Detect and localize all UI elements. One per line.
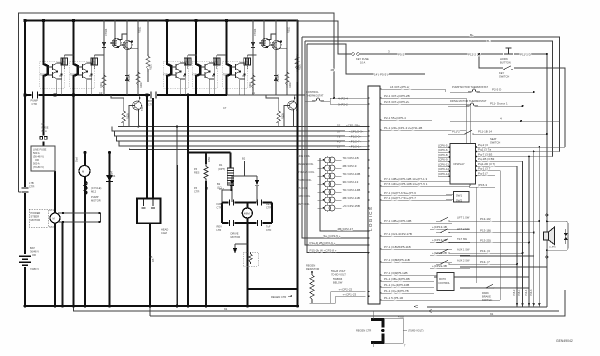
svg-text:B2: B2 bbox=[217, 182, 221, 186]
svg-text:MOTO: MOTO bbox=[439, 278, 446, 281]
svg-text:REV: REV bbox=[266, 202, 272, 206]
svg-text:SWITCH: SWITCH bbox=[490, 141, 500, 145]
svg-text:BAT: BAT bbox=[30, 246, 35, 250]
svg-text:P11-1 D: P11-1 D bbox=[520, 53, 532, 57]
svg-text:14 ( P5-5 (: 14 ( P5-5 ( bbox=[374, 73, 388, 77]
svg-text:36/48 V: 36/48 V bbox=[30, 250, 39, 254]
svg-text:(CP6-5: (CP6-5 bbox=[438, 143, 448, 147]
svg-text:P7-1 13B+(CP5-13B: P7-1 13B+(CP5-13B bbox=[384, 219, 411, 223]
svg-text:HEAD: HEAD bbox=[161, 228, 168, 232]
svg-text:L7B: L7B bbox=[29, 181, 34, 185]
svg-text:CTR: CTR bbox=[32, 102, 37, 106]
svg-text:+5: +5 bbox=[337, 140, 341, 144]
svg-text:MOTOR: MOTOR bbox=[91, 199, 101, 203]
svg-text:B2: B2 bbox=[242, 157, 246, 161]
svg-text:7D-8D VOLT: 7D-8D VOLT bbox=[331, 273, 346, 277]
svg-text:CTR: CTR bbox=[194, 190, 199, 194]
svg-text:5W1: 5W1 bbox=[456, 194, 463, 198]
svg-text:LTR: LTR bbox=[217, 228, 222, 232]
svg-text:FUSE: FUSE bbox=[42, 126, 49, 130]
svg-text:CTR: CTR bbox=[148, 103, 153, 107]
svg-text:RES: RES bbox=[194, 171, 200, 175]
svg-text:M12: M12 bbox=[91, 190, 97, 194]
svg-text:<P1/2-5<: <P1/2-5< bbox=[349, 135, 362, 139]
svg-text:P2-1 34T+(CP5-2B: P2-1 34T+(CP5-2B bbox=[384, 94, 410, 98]
svg-text:(P15-3: (P15-3 bbox=[478, 183, 487, 187]
svg-text:P2-1 55+(CP5-4: P2-1 55+(CP5-4 bbox=[384, 116, 406, 120]
svg-text:PUMP: PUMP bbox=[31, 99, 39, 103]
svg-text:OR: OR bbox=[32, 253, 36, 257]
svg-text:4<P2-4: 4<P2-4 bbox=[338, 97, 348, 101]
svg-text:F5 COIL: F5 COIL bbox=[298, 186, 308, 190]
svg-text:7D<CP2-1B: 7D<CP2-1B bbox=[343, 156, 359, 160]
svg-text:KEY: KEY bbox=[499, 71, 504, 75]
svg-text:LINE FUSE: LINE FUSE bbox=[33, 148, 47, 152]
svg-text:POWER: POWER bbox=[31, 211, 41, 215]
svg-text:M: M bbox=[53, 217, 55, 221]
svg-text:DISPLAY: DISPLAY bbox=[454, 162, 465, 166]
svg-text:D5D: D5D bbox=[207, 157, 211, 162]
svg-text:Du4: Du4 bbox=[110, 171, 114, 176]
svg-text:D5: D5 bbox=[151, 258, 155, 262]
svg-text:P13-3: P13-3 bbox=[530, 289, 533, 296]
svg-text:2B: 2B bbox=[331, 68, 335, 72]
svg-text:C3: C3 bbox=[99, 91, 103, 95]
svg-text:(36-48 V): (36-48 V) bbox=[33, 155, 44, 159]
svg-text:Pq1 (3 7a: Pq1 (3 7a bbox=[478, 148, 491, 152]
svg-text:+5(B.: +5(B. bbox=[398, 315, 405, 319]
svg-text:(CP6-12: (CP6-12 bbox=[438, 167, 450, 171]
svg-text:REGEN CTR: REGEN CTR bbox=[356, 329, 371, 333]
svg-text:GEN49042: GEN49042 bbox=[556, 339, 573, 343]
svg-text:<CP1-2B<: <CP1-2B< bbox=[346, 124, 360, 128]
svg-text:7D<CP2-10B: 7D<CP2-10B bbox=[343, 172, 361, 176]
svg-text:91: 91 bbox=[490, 312, 494, 316]
svg-text:<P1/2-1<: <P1/2-1< bbox=[349, 145, 362, 149]
svg-text:2B<CP2-17: 2B<CP2-17 bbox=[338, 227, 354, 231]
svg-text:P1-1 (3+(4(P5-10B: P1-1 (3+(4(P5-10B bbox=[384, 283, 409, 287]
svg-text:Pq-3 (7: Pq-3 (7 bbox=[478, 172, 488, 176]
svg-text:LIFT 1 SW: LIFT 1 SW bbox=[457, 216, 470, 220]
svg-text:(CP6-9: (CP6-9 bbox=[438, 158, 448, 162]
svg-text:LINE COIL: LINE COIL bbox=[298, 154, 311, 158]
svg-text:P7-1 (3x(P7-7 51+(P7-7: P7-1 (3x(P7-7 51+(P7-7 bbox=[384, 196, 416, 200]
svg-text:+<CP1-23: +<CP1-23 bbox=[343, 292, 357, 296]
svg-text:ST2: ST2 bbox=[49, 225, 54, 229]
svg-text:L6 34T+(P5-L(: L6 34T+(P5-L( bbox=[390, 85, 409, 89]
svg-text:CONTROL: CONTROL bbox=[438, 282, 450, 285]
svg-text:91: 91 bbox=[224, 307, 228, 311]
svg-text:SEAT: SEAT bbox=[490, 137, 497, 141]
svg-text:500 A: 500 A bbox=[33, 151, 40, 155]
svg-text:TuF: TuF bbox=[266, 225, 271, 229]
svg-text:R1: R1 bbox=[219, 163, 223, 167]
svg-text:C7: C7 bbox=[223, 106, 227, 110]
svg-text:P13-2D(: P13-2D( bbox=[480, 238, 491, 242]
svg-text:CTR: CTR bbox=[217, 206, 222, 210]
svg-text:48M: 48M bbox=[244, 212, 250, 216]
svg-text:P1-1 (3B+(4(P5-9B: P1-1 (3B+(4(P5-9B bbox=[384, 277, 410, 281]
svg-text:5W2: 5W2 bbox=[456, 199, 463, 203]
svg-text:LOGICS: LOGICS bbox=[368, 206, 373, 231]
svg-text:<P1/2-7<: <P1/2-7< bbox=[349, 140, 362, 144]
svg-text:BELOW: BELOW bbox=[333, 281, 343, 285]
svg-text:5W8W6: 5W8W6 bbox=[333, 277, 343, 281]
svg-text:P15-1: P15-1 bbox=[518, 289, 521, 296]
svg-text:P7-5 13D+(CP5-13B 13+(P7-5 1: P7-5 13D+(CP5-13B 13+(P7-5 1 bbox=[384, 182, 428, 186]
svg-text:PARK: PARK bbox=[482, 291, 489, 295]
svg-text:<CP1/2-3<: <CP1/2-3< bbox=[349, 130, 364, 134]
svg-text:(CP6-6: (CP6-6 bbox=[438, 148, 448, 152]
svg-text:2B<CP2-11B: 2B<CP2-11B bbox=[343, 196, 360, 200]
svg-text:P1-1 (3)+(4(P5-7B: P1-1 (3)+(4(P5-7B bbox=[384, 289, 409, 293]
svg-text:DRIVE MOTOR THERMOSTAT: DRIVE MOTOR THERMOSTAT bbox=[450, 99, 487, 103]
svg-text:500 A: 500 A bbox=[33, 162, 40, 166]
svg-text:AUX 1 SW: AUX 1 SW bbox=[457, 248, 470, 252]
svg-text:(70-80 V): (70-80 V) bbox=[33, 165, 44, 169]
svg-text:FWD: FWD bbox=[217, 202, 223, 206]
svg-text:7D<CP2-14B: 7D<CP2-14B bbox=[343, 188, 361, 192]
svg-text:xx-8Rx: xx-8Rx bbox=[549, 247, 557, 249]
svg-text:3<P2-2: 3<P2-2 bbox=[338, 103, 348, 107]
svg-text:SWITCH: SWITCH bbox=[499, 75, 509, 79]
svg-text:SWITCH: SWITCH bbox=[482, 298, 492, 302]
svg-text:P7-1 (3)9(P5-12B: P7-1 (3)9(P5-12B bbox=[384, 271, 408, 275]
svg-text:(CP6-11: (CP6-11 bbox=[438, 163, 449, 167]
svg-text:THERMOSTAT: THERMOSTAT bbox=[306, 94, 324, 98]
svg-text:PUMP COIL: PUMP COIL bbox=[298, 178, 313, 182]
svg-text:2B<CP2-9: 2B<CP2-9 bbox=[343, 164, 357, 168]
svg-text:KEY FUSE: KEY FUSE bbox=[356, 57, 369, 61]
svg-text:P11-1B 14: P11-1B 14 bbox=[478, 130, 492, 134]
svg-text:M: M bbox=[82, 170, 84, 174]
svg-text:(CP6-8: (CP6-8 bbox=[438, 153, 448, 157]
svg-text:(OPT): (OPT) bbox=[218, 167, 225, 171]
svg-text:P7-1 (3.8MKP5-11B: P7-1 (3.8MKP5-11B bbox=[384, 245, 411, 249]
svg-text:(CP6-14: (CP6-14 bbox=[438, 172, 450, 176]
svg-text:P1a-D 2B<CP2-6 +: P1a-D 2B<CP2-6 + bbox=[310, 241, 336, 245]
svg-text:OR: OR bbox=[35, 158, 39, 162]
svg-text:P7-1 (3x(P7-6 5a+(P7-6: P7-1 (3x(P7-6 5a+(P7-6 bbox=[384, 191, 416, 195]
svg-text:DRIVE: DRIVE bbox=[231, 232, 239, 236]
svg-text:D5: D5 bbox=[149, 255, 153, 259]
svg-text:REGEN: REGEN bbox=[306, 264, 315, 268]
svg-text:P1-1 (2D+(CP1-3 2+(P11-2B: P1-1 (2D+(CP1-3 2+(P11-2B bbox=[384, 126, 422, 130]
svg-text:37: 37 bbox=[337, 130, 341, 134]
svg-text:B-: B- bbox=[487, 39, 490, 43]
svg-text:BRAKE: BRAKE bbox=[482, 295, 491, 299]
svg-text:P13-4: P13-4 bbox=[525, 289, 528, 296]
svg-text:P2-5 34T+(CP5-2L: P2-5 34T+(CP5-2L bbox=[384, 100, 410, 104]
svg-text:3D<CP2-13: 3D<CP2-13 bbox=[343, 180, 359, 184]
svg-text:+<CP2-22: +<CP2-22 bbox=[339, 288, 353, 292]
svg-text:REGEN CTR: REGEN CTR bbox=[271, 295, 286, 299]
svg-text:52: 52 bbox=[337, 124, 341, 128]
svg-text:73: 73 bbox=[337, 135, 341, 139]
svg-text:+5<CP2-15B: +5<CP2-15B bbox=[343, 204, 360, 208]
svg-text:HORN: HORN bbox=[500, 57, 508, 61]
svg-text:+(CP13-1B: +(CP13-1B bbox=[432, 225, 447, 229]
svg-text:P7-1 13B+(CP5-12B 13+(P7-1 3: P7-1 13B+(CP5-12B 13+(P7-1 3 bbox=[384, 177, 428, 181]
svg-text:Pq-2 (3: Pq-2 (3 bbox=[478, 143, 488, 147]
svg-text:L7: L7 bbox=[337, 145, 341, 149]
svg-text:+(CP2a-3B: +(CP2a-3B bbox=[432, 264, 447, 268]
svg-text:PUMP: PUMP bbox=[91, 195, 99, 199]
svg-text:CONTROL: CONTROL bbox=[306, 90, 319, 94]
svg-text:FWD COIL: FWD COIL bbox=[298, 194, 311, 198]
svg-text:BUTTON: BUTTON bbox=[500, 61, 511, 65]
svg-text:10 A: 10 A bbox=[360, 61, 365, 65]
svg-text:BYPASS COIL: BYPASS COIL bbox=[298, 170, 316, 174]
svg-text:RESISTOR: RESISTOR bbox=[306, 267, 319, 271]
svg-text:AUX 2 SW: AUX 2 SW bbox=[457, 259, 470, 263]
svg-text:C7D: C7D bbox=[266, 228, 271, 232]
svg-text:TILT SW: TILT SW bbox=[457, 237, 468, 241]
svg-text:REV: REV bbox=[217, 225, 223, 229]
svg-text:Pq-1B (3 B3: Pq-1B (3 B3 bbox=[478, 157, 495, 161]
svg-text:MOTOR: MOTOR bbox=[31, 218, 41, 222]
svg-text:P13- (7: P13- (7 bbox=[480, 260, 490, 264]
svg-text:CAM: CAM bbox=[161, 231, 167, 235]
svg-text:Pq1-2D (3 7): Pq1-2D (3 7) bbox=[478, 162, 495, 166]
svg-text:Pq-7 (3 B3: Pq-7 (3 B3 bbox=[478, 153, 493, 157]
svg-text:60 A: 60 A bbox=[42, 129, 47, 133]
svg-text:REGEN COIL: REGEN COIL bbox=[298, 162, 315, 166]
svg-text:Dud: Dud bbox=[75, 157, 79, 162]
svg-text:CTR: CTR bbox=[29, 185, 34, 189]
svg-text:+(CP13-2B: +(CP13-2B bbox=[432, 238, 447, 242]
svg-text:BYP: BYP bbox=[148, 99, 153, 103]
svg-text:P7-1 (3)8M(P5-11B: P7-1 (3)8M(P5-11B bbox=[384, 258, 410, 262]
svg-text:STEER: STEER bbox=[31, 215, 40, 219]
svg-text:P15-2: P15-2 bbox=[513, 289, 516, 296]
svg-text:(CYCLE): (CYCLE) bbox=[91, 186, 102, 190]
svg-text:P11-2: P11-2 bbox=[452, 130, 460, 134]
svg-text:P11- Dxxxx 1: P11- Dxxxx 1 bbox=[490, 102, 508, 106]
svg-text:P13- (3: P13- (3 bbox=[480, 249, 490, 253]
svg-text:Pq-1 (3 T: Pq-1 (3 T bbox=[478, 167, 491, 171]
svg-text:P13-1B(: P13-1B( bbox=[480, 228, 491, 232]
svg-text:(70/80 VOLT): (70/80 VOLT) bbox=[408, 329, 424, 333]
svg-text:5a <CP2-5 +: 5a <CP2-5 + bbox=[324, 234, 341, 238]
svg-text:P2-5 D: P2-5 D bbox=[492, 88, 502, 92]
svg-text:P15-2b W <CP2-8 +: P15-2b W <CP2-8 + bbox=[310, 249, 337, 253]
svg-text:5W+B VOLT: 5W+B VOLT bbox=[331, 269, 346, 273]
svg-text:ST1: ST1 bbox=[49, 208, 54, 212]
svg-text:72/80 V: 72/80 V bbox=[30, 267, 39, 271]
svg-text:B+: B+ bbox=[470, 33, 474, 37]
svg-text:P7-1 (3x3-4CP2-17B: P7-1 (3x3-4CP2-17B bbox=[384, 232, 412, 236]
svg-text:REV COIL: REV COIL bbox=[298, 202, 311, 206]
svg-text:P5: P5 bbox=[42, 122, 46, 126]
svg-text:PUMP MOTOR THERMOSTAT: PUMP MOTOR THERMOSTAT bbox=[452, 85, 488, 89]
svg-text:P1-1 5 (P5-1R: P1-1 5 (P5-1R bbox=[384, 296, 404, 300]
svg-text:P13-19(: P13-19( bbox=[480, 217, 491, 221]
svg-text:CTR: CTR bbox=[266, 206, 271, 210]
svg-text:MOTOR: MOTOR bbox=[231, 235, 241, 239]
svg-text:LIFT 2 SW: LIFT 2 SW bbox=[457, 227, 470, 231]
svg-text:R1Z: R1Z bbox=[219, 187, 224, 191]
svg-text:P5-2: P5-2 bbox=[398, 53, 405, 57]
